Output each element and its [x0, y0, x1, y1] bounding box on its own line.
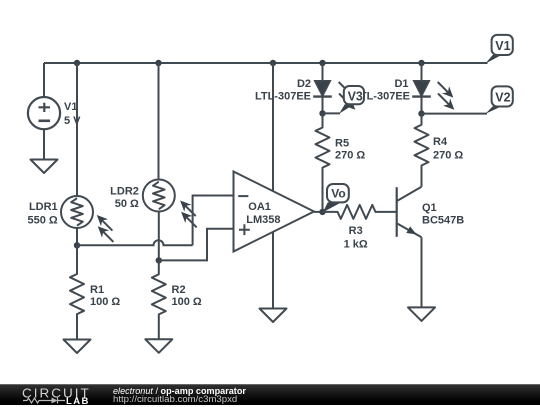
svg-text:LDR2: LDR2	[110, 186, 139, 198]
svg-text:270 Ω: 270 Ω	[335, 150, 365, 162]
label R4 value	[433, 136, 463, 162]
op-amp OA1	[234, 172, 315, 252]
node LDR2 divider junction	[156, 257, 162, 263]
label D1 value	[354, 78, 410, 103]
svg-text:R1: R1	[90, 284, 104, 296]
svg-text:LTL-307EE: LTL-307EE	[255, 91, 311, 103]
wire LDR2 junction to non-inverting input	[159, 229, 234, 261]
net flag V1 top right	[485, 35, 513, 64]
node top rail junction LDR1	[74, 60, 80, 66]
resistor R1	[70, 245, 84, 339]
label D2 value	[255, 78, 311, 103]
node op-amp output junction	[319, 209, 325, 215]
svg-text:R2: R2	[172, 284, 186, 296]
LED D2	[313, 81, 355, 110]
wire D1 cathode lead	[421, 97, 423, 114]
node top rail junction op-amp supply	[270, 60, 276, 66]
label LDR2 value	[110, 186, 139, 211]
svg-text:1 kΩ: 1 kΩ	[344, 239, 368, 251]
wire D2 anode lead	[322, 63, 324, 81]
label R3 value	[344, 225, 368, 251]
wire D2 cathode lead	[322, 97, 324, 114]
svg-text:270 Ω: 270 Ω	[433, 150, 463, 162]
wire LDR1 bottom lead	[76, 228, 78, 245]
svg-text:R3: R3	[349, 225, 363, 237]
label R2 value	[172, 284, 202, 308]
node top rail junction D2	[319, 60, 325, 66]
LED D1	[412, 81, 454, 110]
label LDR1 value	[27, 201, 57, 227]
transistor Q1	[397, 187, 422, 238]
svg-text:LDR1: LDR1	[29, 201, 58, 213]
node LDR1 divider junction	[74, 242, 80, 248]
net flag V3	[323, 86, 365, 114]
svg-text:50 Ω: 50 Ω	[115, 198, 139, 210]
svg-text:LM358: LM358	[246, 214, 280, 226]
svg-text:R5: R5	[335, 138, 349, 150]
photoresistor LDR2	[143, 180, 197, 228]
wire Q1 emitter to ground	[421, 237, 423, 307]
wire V1 source bottom lead	[43, 129, 45, 159]
wire D1 anode lead	[421, 63, 423, 81]
svg-text:Q1: Q1	[422, 202, 437, 214]
ground below Q1	[408, 307, 435, 321]
svg-text:OA1: OA1	[248, 201, 271, 213]
ground below R2	[145, 339, 172, 353]
label Q1 value	[422, 202, 464, 227]
svg-text:550 Ω: 550 Ω	[27, 215, 57, 227]
net flag Vo	[323, 184, 349, 212]
svg-text:V3: V3	[348, 89, 363, 103]
svg-text:V1: V1	[64, 101, 77, 113]
svg-text:BC547B: BC547B	[422, 215, 464, 227]
wire op-amp negative supply	[272, 232, 274, 309]
wire LDR1 junction to inverting riser with hop	[77, 240, 193, 245]
label R5 value	[335, 138, 365, 162]
net flag V2	[485, 86, 513, 114]
node top rail junction D1	[418, 60, 424, 66]
svg-text:V2: V2	[495, 91, 510, 105]
wire riser to inverting input	[193, 196, 234, 246]
svg-text:R4: R4	[433, 136, 448, 148]
wire LDR1 top lead	[76, 63, 78, 196]
label OA1	[246, 201, 280, 226]
footer bar	[0, 384, 540, 405]
voltage source V1	[28, 97, 60, 129]
svg-text:V1: V1	[495, 39, 510, 53]
photoresistor LDR1	[61, 196, 113, 242]
svg-text:D1: D1	[394, 78, 408, 90]
ground below op-amp	[260, 309, 287, 323]
svg-text:100 Ω: 100 Ω	[90, 296, 120, 308]
resistor R4	[415, 114, 429, 187]
resistor R2	[152, 260, 166, 339]
svg-text:5 V: 5 V	[64, 115, 81, 127]
wire V1 source top lead	[43, 63, 45, 97]
wire LDR2 bottom lead	[158, 212, 160, 261]
label R1 value	[90, 284, 120, 308]
wire LDR2 top lead	[158, 63, 160, 180]
ground below R1	[64, 340, 91, 354]
label V1 value	[64, 101, 81, 127]
svg-text:100 Ω: 100 Ω	[172, 296, 202, 308]
node D2 cathode junction	[319, 110, 325, 116]
svg-text:D2: D2	[297, 78, 311, 90]
wire op-amp positive supply	[272, 63, 274, 191]
node D1 cathode junction	[418, 110, 424, 116]
ground below V1	[31, 160, 58, 174]
resistor R3	[323, 205, 397, 219]
wire top rail	[44, 62, 488, 64]
node top rail junction LDR2	[155, 60, 161, 66]
footer text	[113, 386, 246, 396]
CircuitLab logo	[22, 386, 91, 400]
svg-text:Vo: Vo	[331, 187, 345, 201]
wire op-amp output	[314, 211, 323, 213]
wire D1 junction to V2 flag	[422, 113, 488, 115]
resistor R5	[316, 113, 330, 211]
